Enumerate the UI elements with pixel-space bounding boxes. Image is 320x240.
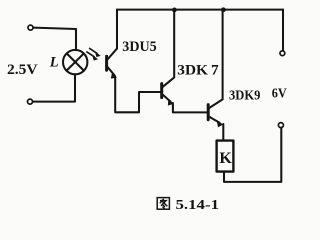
wire relay K to 6V - terminal — [224, 128, 281, 182]
light arrow 1 — [90, 48, 101, 56]
svg-text:2.5V: 2.5V — [7, 62, 38, 78]
svg-text:6V: 6V — [272, 86, 287, 101]
wire 3DK7 emitter to 3DK9 base — [173, 103, 208, 112]
svg-text:5.14-1: 5.14-1 — [176, 198, 220, 213]
svg-text:3DK9: 3DK9 — [229, 89, 260, 104]
terminal 6V + — [280, 51, 285, 56]
transistor 3DK9 base bar — [207, 105, 210, 120]
lamp L — [63, 50, 87, 74]
junction dot rail/3DK7 collector — [172, 7, 177, 12]
phototransistor 3DU5 base bar — [105, 56, 108, 70]
3DU5 collector wire up to rail — [107, 10, 117, 60]
wire lamp bottom to bottom-left terminal — [33, 74, 75, 101]
3DK9 emitter with arrow — [209, 116, 223, 127]
transistor 3DK7 base bar — [160, 84, 163, 98]
wire 3DK9 emitter to relay K — [222, 124, 224, 141]
wire top-left terminal to lamp top — [33, 28, 76, 51]
3DU5 emitter with arrow — [107, 66, 116, 78]
svg-text:3DU5: 3DU5 — [122, 39, 156, 55]
top supply rail — [117, 9, 283, 11]
3DK7 emitter with arrow — [162, 94, 173, 105]
caption figure character TU (图) drawn as strokes — [157, 198, 169, 210]
wire 3DU5 emitter to 3DK7 base (step) — [115, 77, 161, 113]
svg-text:K: K — [219, 150, 232, 167]
terminal bottom-left (2.5V -) — [28, 99, 33, 104]
terminal 6V - — [278, 123, 283, 128]
relay coil K box — [217, 141, 234, 172]
wire rail right end down to 6V + terminal — [282, 10, 284, 51]
terminal top-left (2.5V +) — [28, 25, 33, 30]
svg-text:3DK 7: 3DK 7 — [177, 62, 218, 78]
light arrow 2 — [87, 52, 98, 60]
3DK9 collector wire up to rail — [209, 11, 223, 109]
junction dot rail/3DK9 collector — [221, 7, 226, 12]
3DK7 collector wire up to rail — [162, 11, 174, 88]
svg-text:L: L — [49, 55, 59, 71]
